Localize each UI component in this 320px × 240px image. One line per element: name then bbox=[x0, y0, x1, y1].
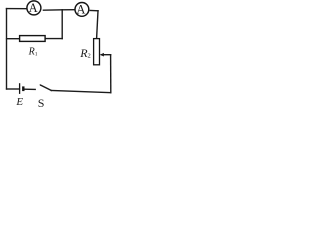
wire R1 branch right to junction bbox=[45, 38, 62, 40]
wire bottom-left corner to battery bbox=[7, 88, 20, 90]
wire bottom-right vertical up to wiper bbox=[110, 55, 112, 93]
switch S blade bbox=[40, 85, 51, 91]
wire between A1 and A2 bbox=[43, 9, 75, 12]
resistor R2 (rheostat) bbox=[94, 39, 100, 65]
battery E: long plate bbox=[19, 83, 21, 94]
wire wiper horizontal bbox=[102, 54, 111, 56]
wire switch to bottom-right corner bbox=[51, 91, 111, 93]
wire R1 branch left bbox=[7, 38, 20, 40]
wire battery to switch bbox=[24, 88, 35, 90]
resistor R1 bbox=[20, 36, 45, 42]
svg-text:S: S bbox=[38, 96, 45, 109]
ammeter A1 bbox=[27, 1, 41, 15]
wire right vertical down to R2 bbox=[97, 11, 98, 39]
wire top-left: left corner to ammeter A1 bbox=[7, 8, 27, 10]
wire A2 to top-right corner bbox=[90, 10, 98, 12]
battery E: short thick plate bbox=[22, 86, 24, 91]
wire junction vertical bbox=[61, 10, 63, 39]
wire left vertical bbox=[6, 9, 8, 89]
svg-text:A: A bbox=[76, 2, 85, 16]
svg-text:A: A bbox=[29, 1, 38, 15]
ammeter A2 bbox=[75, 2, 89, 16]
wiper arrowhead bbox=[100, 53, 104, 57]
svg-text:E: E bbox=[15, 96, 23, 108]
